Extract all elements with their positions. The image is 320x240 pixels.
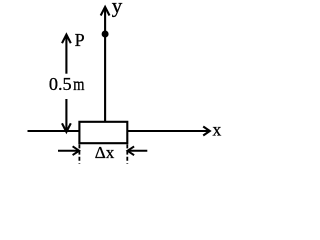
block [79, 122, 127, 143]
left dashed extension line [78, 144, 80, 163]
svg-text:P: P [75, 30, 85, 50]
point on y-axis [102, 31, 109, 38]
left dimension arrow [58, 146, 79, 155]
y-axis [101, 7, 110, 123]
svg-text:0.5m: 0.5m [49, 74, 85, 94]
right dimension arrow [128, 146, 148, 155]
svg-text:x: x [213, 119, 222, 139]
right dashed extension line [126, 144, 128, 163]
svg-text:Δx: Δx [95, 143, 115, 162]
x-axis [28, 127, 210, 136]
svg-text:y: y [112, 0, 123, 18]
dimension line 0.5 m with force arrows [62, 35, 71, 132]
